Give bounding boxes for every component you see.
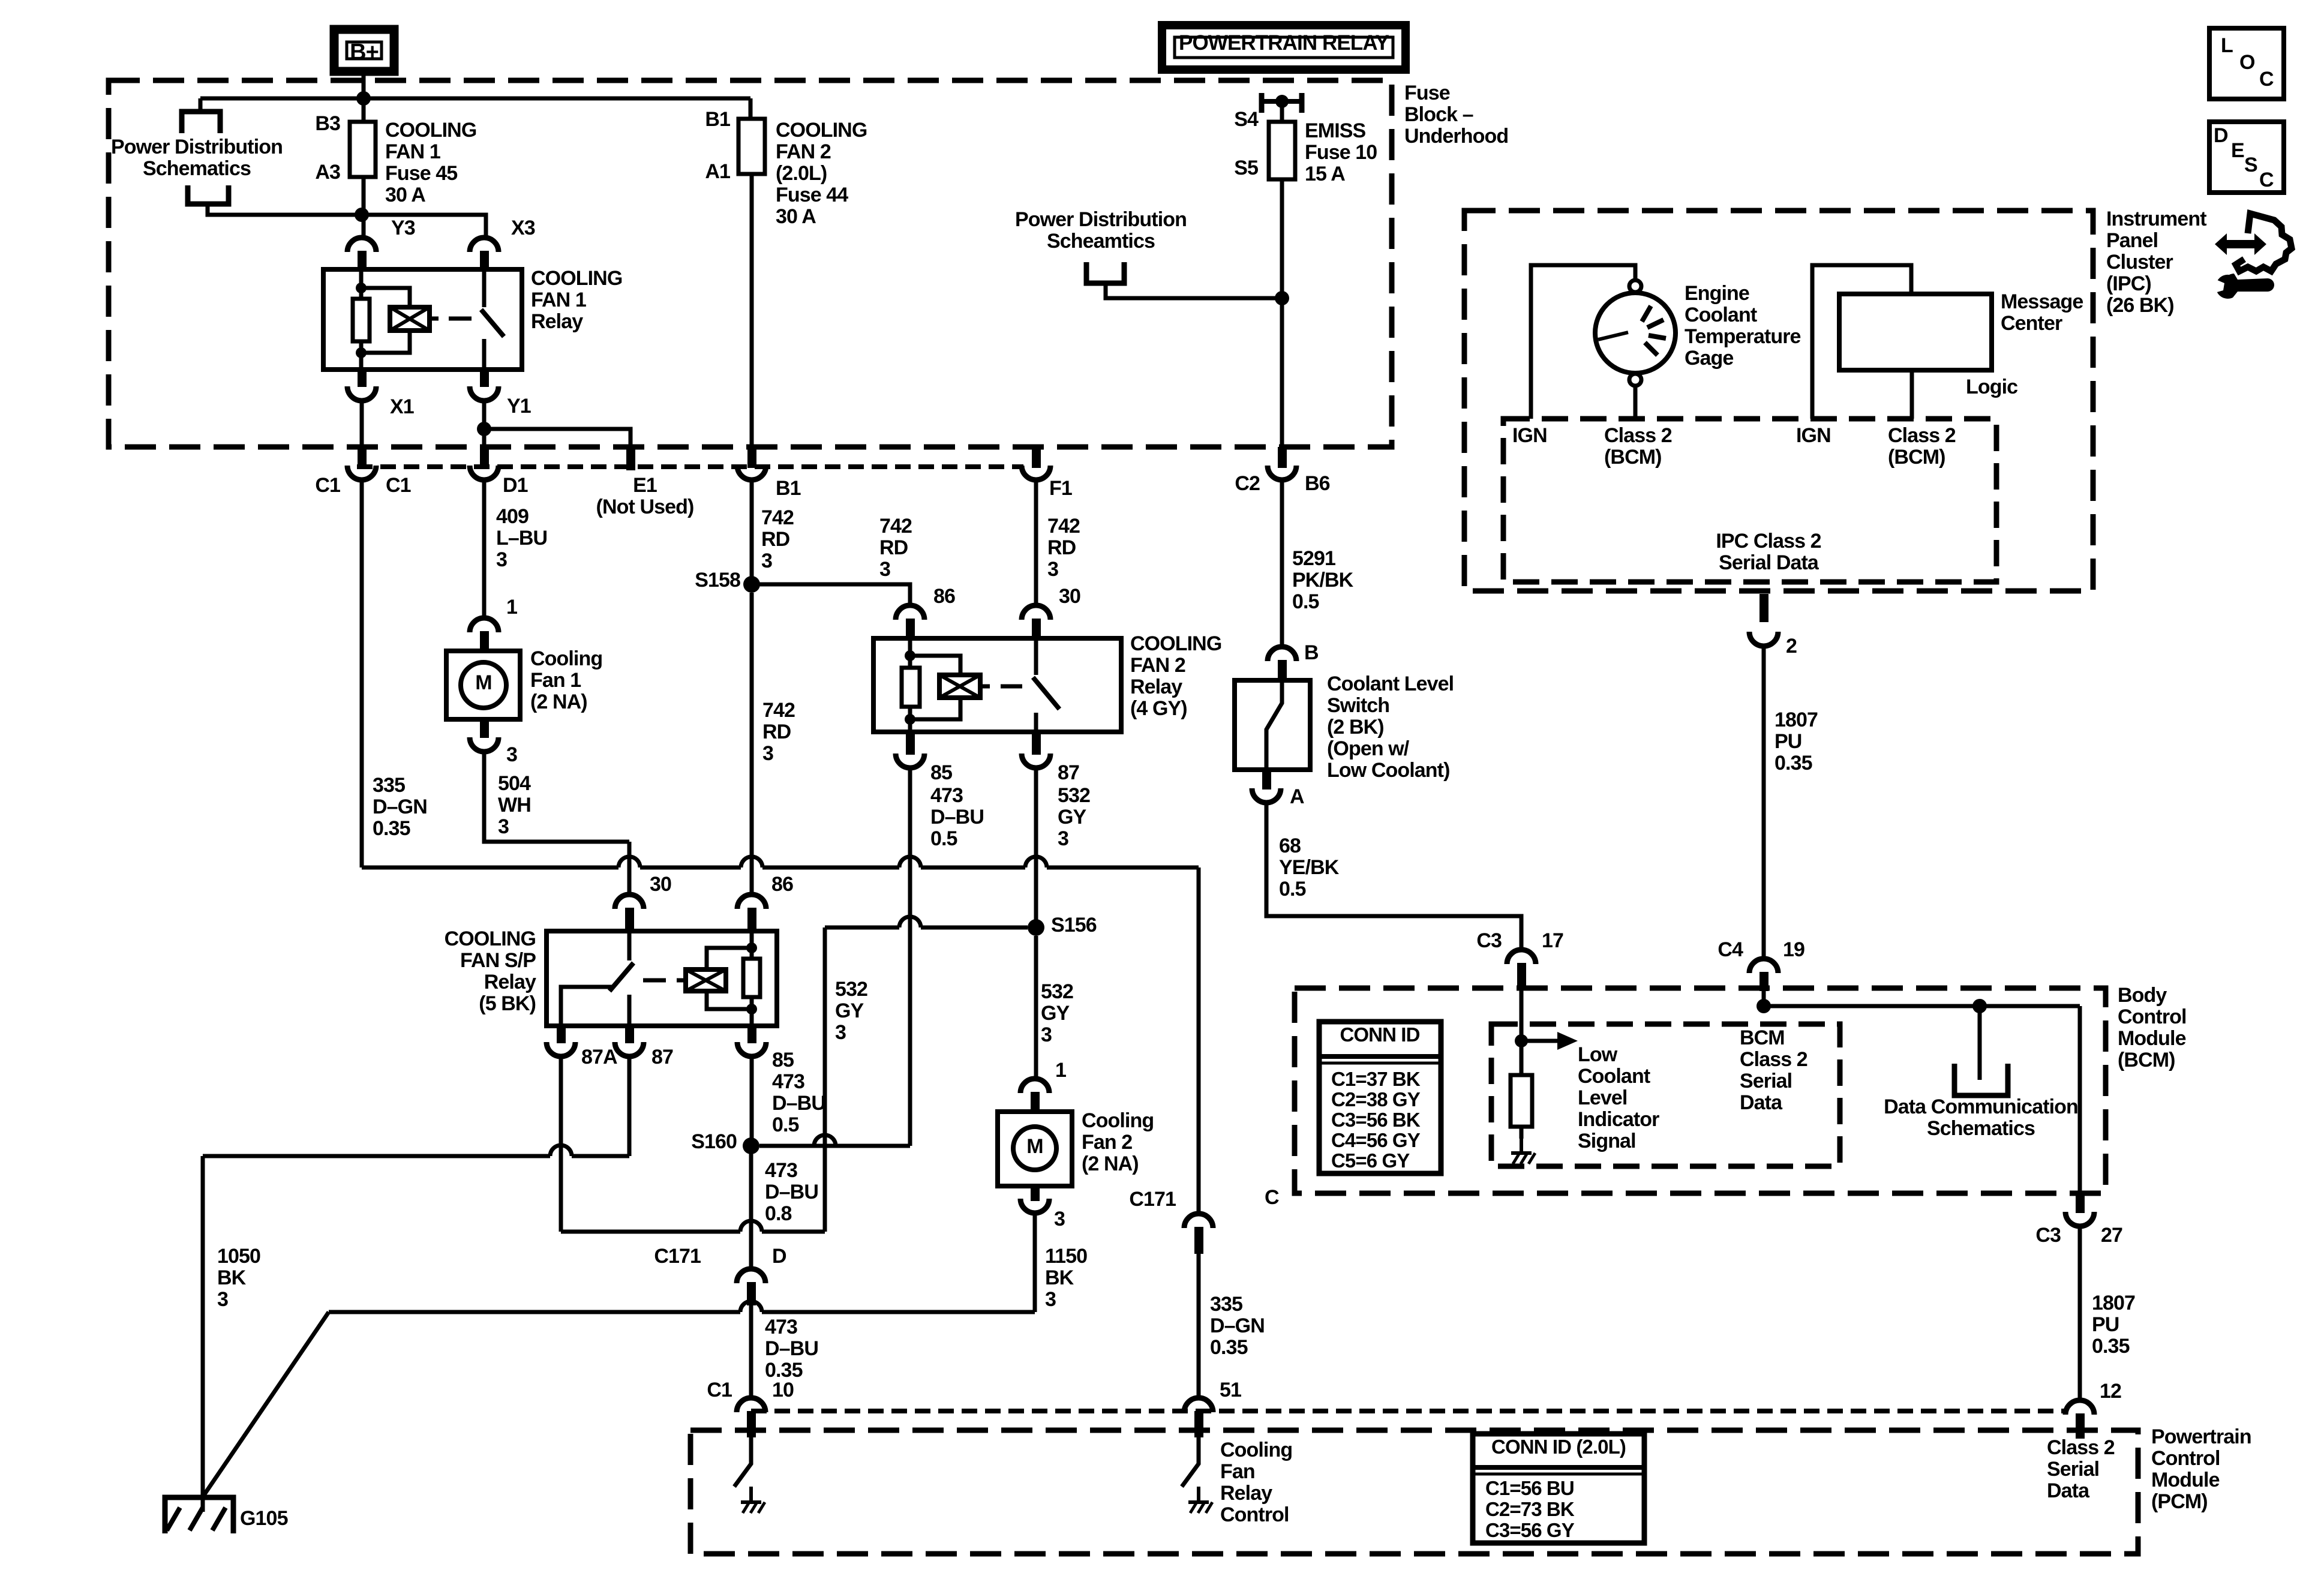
svg-text:C1: C1 [315, 474, 340, 497]
coolant level switch box [1235, 680, 1310, 770]
svg-text:3: 3 [1047, 558, 1058, 581]
svg-text:COOLING: COOLING [776, 119, 867, 142]
svg-text:C2=38 GY: C2=38 GY [1331, 1088, 1421, 1110]
connector 30 relay K2 (cup) [1022, 605, 1050, 620]
wire message center logic [1910, 370, 1914, 419]
connector 1 fan1 (cup) [470, 618, 499, 632]
svg-text:A: A [1290, 785, 1304, 808]
svg-text:C3=56 GY: C3=56 GY [1485, 1519, 1575, 1541]
svg-text:GY: GY [1058, 806, 1087, 828]
node fuse45/X3 junction [355, 208, 369, 222]
svg-text:0.35: 0.35 [373, 817, 410, 840]
svg-text:Class 2: Class 2 [1604, 424, 1672, 447]
svg-text:0.5: 0.5 [1279, 878, 1306, 900]
svg-text:FAN 1: FAN 1 [531, 289, 586, 311]
svg-text:(PCM): (PCM) [2151, 1490, 2208, 1513]
pin 3 fan2 [1031, 1185, 1040, 1201]
svg-text:C: C [1265, 1186, 1279, 1209]
svg-text:(5 BK): (5 BK) [479, 992, 536, 1015]
svg-text:87A: 87A [581, 1046, 617, 1068]
svg-text:(2 BK): (2 BK) [1327, 716, 1384, 739]
pin 87 relay K2 [1032, 731, 1041, 755]
node relay K3 coil bottom [746, 1004, 757, 1014]
svg-text:E1: E1 [633, 474, 657, 497]
wire from bracket to fuse 45 leg [208, 204, 364, 215]
pin 87 S/P relay [625, 1025, 634, 1043]
svg-text:1150: 1150 [1045, 1245, 1087, 1268]
relay K1 COOLING FAN 1 Relay box [323, 269, 522, 370]
svg-text:GY: GY [1041, 1002, 1070, 1025]
pin B1 at fuse block exit [747, 447, 756, 468]
svg-text:Relay: Relay [1130, 676, 1182, 698]
svg-text:17: 17 [1542, 929, 1563, 952]
fuse F44 COOLING FAN 2 [738, 119, 765, 174]
svg-text:1807: 1807 [2092, 1292, 2135, 1314]
svg-text:68: 68 [1279, 834, 1301, 857]
svg-text:Body: Body [2118, 984, 2167, 1007]
relay K2 coil wire [908, 638, 912, 732]
svg-text:RD: RD [762, 721, 791, 743]
svg-text:B6: B6 [1305, 472, 1330, 495]
connector D1 (cup) [470, 466, 499, 480]
svg-text:87: 87 [1058, 761, 1079, 784]
svg-text:742: 742 [761, 506, 794, 529]
svg-text:PU: PU [1774, 730, 1801, 753]
wire relay K1 solenoid bracket [361, 288, 410, 307]
wire fan2 pin3 down [1033, 1213, 1037, 1312]
svg-text:30 A: 30 A [776, 205, 816, 228]
connector A coolant switch (cup) [1252, 788, 1281, 803]
svg-text:Gage: Gage [1685, 347, 1733, 370]
svg-text:D: D [772, 1245, 786, 1268]
svg-text:1: 1 [1055, 1059, 1066, 1082]
solenoid relay K3 [686, 969, 726, 991]
svg-text:Signal: Signal [1578, 1130, 1636, 1152]
fuse F10 EMISS [1269, 122, 1295, 179]
wire bracket to EMISS wire [1106, 283, 1282, 298]
relay K1 switch lower contact [482, 339, 487, 370]
svg-text:3: 3 [1045, 1288, 1056, 1311]
splice bus S4 in fuse block [1262, 93, 1302, 113]
svg-text:Class 2: Class 2 [2047, 1436, 2115, 1459]
pin E1 (not used) [626, 449, 635, 470]
fuse F45 COOLING FAN 1 [350, 122, 376, 177]
svg-text:Serial Data: Serial Data [1719, 551, 1819, 574]
wire branch to X3 [364, 215, 486, 239]
wire branch to E1 [484, 429, 630, 449]
svg-text:Y1: Y1 [507, 395, 531, 418]
svg-text:C: C [2259, 68, 2274, 91]
wire B1 to S158 [750, 480, 754, 584]
svg-text:FAN 1: FAN 1 [385, 140, 440, 163]
connector 12 PCM (cup) [2065, 1400, 2094, 1415]
svg-text:85: 85 [772, 1049, 794, 1071]
wire C3/27 to PCM 12 [2078, 1226, 2082, 1399]
svg-text:15 A: 15 A [1305, 163, 1345, 185]
wire gauge to Class 2 (BCM) [1634, 386, 1638, 419]
connector line PCM (dotted) [751, 1409, 2067, 1413]
gauge bottom terminal circle [1629, 374, 1641, 386]
wire 1050 BK vertical [201, 1156, 205, 1512]
svg-text:C171: C171 [654, 1245, 701, 1268]
motor M1 Cooling Fan 1 box [446, 651, 520, 719]
svg-text:IPC Class 2: IPC Class 2 [1716, 530, 1821, 553]
svg-text:Temperature: Temperature [1685, 325, 1801, 348]
svg-text:Y3: Y3 [391, 217, 415, 239]
svg-text:A1: A1 [705, 160, 730, 183]
svg-text:COOLING: COOLING [1130, 632, 1221, 655]
resistor relay K1 coil [353, 299, 370, 341]
svg-text:0.8: 0.8 [765, 1202, 792, 1225]
wire relay K2 85 down to S160 [908, 768, 912, 1146]
svg-text:(BCM): (BCM) [1604, 446, 1662, 469]
svg-text:Module: Module [2118, 1027, 2186, 1050]
pin 85 S/P relay [747, 1025, 756, 1043]
svg-text:C1: C1 [386, 474, 411, 497]
svg-text:BCM: BCM [1740, 1026, 1785, 1049]
connector F1 (cup) [1022, 466, 1050, 480]
pin C1 at fuse block exit [358, 447, 367, 468]
resistor BCM low coolant [1511, 1075, 1532, 1127]
connector 10 PCM (cup) [737, 1398, 765, 1412]
svg-text:D–BU: D–BU [765, 1181, 818, 1203]
wire A to C3/17 [1266, 803, 1521, 951]
svg-text:C2: C2 [1235, 472, 1260, 495]
svg-text:409: 409 [496, 505, 529, 528]
wire S158 to relay K2 86 [752, 584, 910, 605]
svg-text:0.35: 0.35 [2092, 1335, 2130, 1358]
svg-text:S5: S5 [1234, 157, 1258, 179]
svg-text:Relay: Relay [531, 310, 583, 333]
svg-text:PK/BK: PK/BK [1292, 569, 1354, 592]
node relay K1 coil bottom [356, 347, 367, 358]
svg-text:Control: Control [2151, 1447, 2220, 1470]
svg-text:30: 30 [650, 873, 671, 896]
svg-text:IGN: IGN [1796, 424, 1831, 447]
svg-text:Schematics: Schematics [143, 157, 251, 180]
svg-text:532: 532 [835, 978, 867, 1001]
wire class2 to PCM leg [2078, 1006, 2082, 1194]
pin X3 [480, 251, 489, 271]
connector 87 relay K2 (cup) [1022, 754, 1050, 768]
svg-text:S160: S160 [691, 1130, 737, 1153]
svg-text:B1: B1 [705, 108, 730, 131]
svg-text:87: 87 [651, 1046, 673, 1068]
wire 87A to 532 GY left (horizontal) [561, 1221, 825, 1232]
svg-text:G105: G105 [240, 1507, 288, 1530]
svg-text:Indicator: Indicator [1578, 1108, 1659, 1131]
svg-text:X3: X3 [511, 217, 535, 239]
svg-text:C5=6 GY: C5=6 GY [1331, 1149, 1410, 1172]
Fuse Block - Underhood dashed box [109, 80, 1392, 447]
svg-text:Coolant: Coolant [1578, 1065, 1650, 1088]
svg-text:1: 1 [506, 596, 517, 619]
wire relay K3 solenoid bracket [707, 948, 752, 969]
wire fuse44 to B1 connector [750, 174, 754, 449]
svg-text:C171: C171 [1129, 1188, 1176, 1211]
svg-text:Coolant Level: Coolant Level [1327, 673, 1454, 695]
svg-text:Control: Control [1220, 1503, 1289, 1526]
off-page connector Data Communication (bracket) [1954, 1064, 2008, 1095]
splice S160 [743, 1137, 759, 1154]
connector line C1 (dotted) [357, 464, 1023, 469]
svg-text:Message: Message [2001, 290, 2083, 313]
svg-text:Serial: Serial [1740, 1070, 1792, 1092]
svg-text:Block –: Block – [1404, 103, 1473, 126]
svg-text:335: 335 [373, 774, 405, 797]
coolant switch blade [1266, 680, 1282, 770]
svg-text:532: 532 [1041, 980, 1073, 1003]
wire IGN right riser [1812, 265, 1911, 419]
svg-text:2: 2 [1786, 635, 1797, 658]
svg-text:Class 2: Class 2 [1740, 1048, 1807, 1071]
svg-text:(BCM): (BCM) [1888, 446, 1945, 469]
svg-text:RD: RD [879, 536, 908, 559]
wire S/P 87 down [627, 1056, 632, 1156]
svg-text:Fan: Fan [1220, 1460, 1255, 1483]
node low coolant signal junction [1515, 1034, 1528, 1047]
solenoid relay K2 [939, 675, 980, 698]
resistor relay K2 coil [902, 668, 920, 707]
wire D1 to cooling fan 1 [482, 480, 487, 619]
svg-text:B1: B1 [776, 477, 801, 500]
wire 335 D-GN horizontal to C171 C [362, 857, 1199, 867]
svg-text:1807: 1807 [1774, 709, 1818, 731]
svg-text:(IPC): (IPC) [2106, 272, 2151, 295]
svg-text:335: 335 [1210, 1293, 1242, 1316]
svg-text:3: 3 [498, 815, 509, 838]
svg-text:D–GN: D–GN [373, 795, 427, 818]
ground PCM 51 [1197, 1487, 1200, 1502]
svg-text:Serial: Serial [2047, 1458, 2099, 1481]
svg-text:(26 BK): (26 BK) [2106, 294, 2174, 317]
wire B+ vertical into fuse block [362, 76, 366, 122]
wire 532 GY left vertical [823, 927, 827, 1232]
svg-text:D: D [2214, 124, 2228, 147]
wire BCM class2 horizontal [1764, 1004, 2080, 1008]
svg-text:C4=56 GY: C4=56 GY [1331, 1129, 1421, 1151]
off-page connector Power Distribution (bottom bracket) [188, 185, 229, 204]
node relay K2 coil top [905, 650, 915, 661]
node Y1/E1 branch [477, 422, 491, 436]
svg-text:3: 3 [761, 550, 772, 572]
svg-text:S156: S156 [1051, 914, 1097, 936]
svg-text:CONN ID (2.0L): CONN ID (2.0L) [1491, 1436, 1626, 1458]
gauge engine coolant temperature circle [1595, 293, 1676, 373]
pin F1 at fuse block exit [1032, 447, 1041, 468]
pin 85 relay K2 [906, 731, 915, 755]
connector C171 D (cup) [737, 1269, 765, 1283]
wire S160 horizontal to 473 wire [759, 1135, 910, 1146]
svg-text:Data: Data [2047, 1479, 2090, 1502]
connector B1 (cup) [737, 466, 766, 480]
svg-text:473: 473 [765, 1159, 797, 1182]
svg-text:L–BU: L–BU [496, 527, 547, 550]
connector C2/B6 (cup) [1268, 466, 1296, 480]
splice S156 [1028, 919, 1044, 936]
svg-text:0.35: 0.35 [1210, 1336, 1248, 1359]
svg-text:Cooling: Cooling [1220, 1439, 1292, 1461]
svg-text:Switch: Switch [1327, 694, 1389, 717]
svg-text:M: M [475, 671, 491, 694]
pin C2 [1278, 447, 1287, 468]
svg-text:C3: C3 [1476, 929, 1502, 952]
svg-text:85: 85 [930, 761, 952, 784]
PCM driver switch 10 [734, 1437, 751, 1487]
svg-text:EMISS: EMISS [1305, 119, 1366, 142]
connector 51 PCM (cup) [1184, 1398, 1213, 1412]
svg-text:3: 3 [496, 548, 507, 571]
svg-text:YE/BK: YE/BK [1279, 856, 1340, 879]
connector 85 S/P relay (cup) [737, 1042, 766, 1056]
pin Y3 [358, 251, 367, 271]
connector 3 fan2 (cup) [1020, 1199, 1049, 1213]
wire resistor to ground [1520, 1127, 1524, 1139]
svg-text:Logic: Logic [1966, 376, 2017, 398]
svg-text:D1: D1 [503, 474, 528, 497]
svg-text:Schematics: Schematics [1927, 1117, 2035, 1140]
svg-text:(4 GY): (4 GY) [1130, 697, 1187, 720]
svg-text:5291: 5291 [1292, 547, 1335, 570]
wire S4 to fuse [1280, 101, 1284, 122]
connector 85 relay K2 (cup) [896, 754, 924, 768]
svg-text:O: O [2239, 51, 2255, 74]
wire B+ bus horizontal [200, 97, 750, 101]
wire drop to Power Distribution bracket [199, 98, 203, 110]
pin Y1 [480, 368, 489, 387]
svg-text:742: 742 [762, 699, 795, 722]
relay K3 switch common from 30 [627, 931, 632, 960]
svg-text:C3=56 BK: C3=56 BK [1331, 1109, 1421, 1131]
pin D1 at fuse block exit [480, 447, 489, 468]
relay K1 actuator dashes [430, 317, 439, 321]
svg-text:Module: Module [2151, 1469, 2220, 1491]
svg-text:3: 3 [1058, 827, 1068, 850]
relay K1 switch common [482, 272, 487, 307]
pin 87A S/P relay [557, 1025, 566, 1043]
svg-text:504: 504 [498, 772, 531, 795]
connector C3/27 (cup) [2065, 1212, 2094, 1226]
svg-text:(2 NA): (2 NA) [1082, 1152, 1139, 1175]
svg-text:BK: BK [1045, 1266, 1074, 1289]
svg-text:3: 3 [217, 1288, 228, 1311]
connector 3 fan1 (cup) [470, 737, 499, 752]
pin 3 fan1 [480, 718, 489, 738]
wire S160 down [749, 1154, 753, 1270]
node S4 [1275, 95, 1289, 108]
svg-text:COOLING: COOLING [445, 927, 536, 950]
svg-text:Class 2: Class 2 [1888, 424, 1956, 447]
wire S/P 85 to S160 [750, 1056, 754, 1138]
relay K1 switch blade [481, 310, 504, 337]
svg-text:Fuse 45: Fuse 45 [385, 162, 457, 185]
svg-text:B+: B+ [350, 40, 379, 65]
svg-text:473: 473 [765, 1316, 797, 1338]
svg-text:CONN ID: CONN ID [1340, 1023, 1419, 1046]
ground PCM 10 [749, 1487, 753, 1502]
arrow low coolant level indicator signal [1521, 1032, 1578, 1050]
svg-text:RD: RD [761, 528, 790, 551]
wire F1 to relay K2 30 [1034, 480, 1038, 605]
svg-text:3: 3 [762, 742, 773, 765]
svg-text:C3: C3 [2035, 1224, 2061, 1247]
svg-text:27: 27 [2101, 1224, 2122, 1247]
svg-text:D–BU: D–BU [765, 1337, 818, 1360]
wire fan1 pin3 to S/P relay 30 [484, 752, 629, 842]
connector 87A S/P relay (cup) [547, 1042, 575, 1056]
off-page connector Power Distribution Scheamtics (bracket) [1086, 262, 1124, 283]
svg-text:Instrument: Instrument [2106, 208, 2206, 230]
svg-text:0.35: 0.35 [1774, 752, 1812, 775]
svg-text:E: E [2231, 139, 2244, 162]
relay K2 switch common [1034, 641, 1038, 675]
message center box [1839, 294, 1992, 370]
svg-text:(Not Used): (Not Used) [596, 496, 694, 518]
relay K3 switch 87A branch [561, 987, 612, 1026]
svg-text:742: 742 [1047, 515, 1080, 538]
relay K2 actuator dashes [980, 685, 990, 689]
svg-text:Fuse 10: Fuse 10 [1305, 141, 1377, 164]
svg-text:3: 3 [1041, 1023, 1052, 1046]
svg-text:10: 10 [772, 1379, 794, 1401]
svg-text:FAN 2: FAN 2 [776, 140, 831, 163]
svg-text:86: 86 [771, 873, 793, 896]
svg-text:M: M [1026, 1135, 1043, 1158]
svg-text:GY: GY [835, 999, 864, 1022]
CONN ID (2.0L) table [1473, 1434, 1644, 1543]
svg-text:C1: C1 [707, 1379, 732, 1401]
wire fan2 ground horizontal [329, 1301, 1035, 1312]
svg-text:Data: Data [1740, 1091, 1783, 1114]
svg-text:Level: Level [1578, 1086, 1627, 1109]
pin class2 BCM exit [2076, 1193, 2085, 1213]
resistor relay K3 coil [743, 959, 760, 997]
svg-text:Fuse: Fuse [1404, 82, 1450, 104]
wire 87 to 1050 BK (horizontal) [203, 1145, 629, 1156]
relay K2 switch lower contact [1034, 713, 1038, 732]
svg-text:473: 473 [930, 784, 963, 807]
svg-text:51: 51 [1220, 1379, 1241, 1401]
node BCM class2 junction [1756, 999, 1771, 1013]
gauge top terminal circle [1629, 280, 1641, 292]
wire S156 down to fan2 [1034, 936, 1038, 1080]
connector C3/17 (cup) [1507, 950, 1536, 964]
motor M2 circle [1013, 1127, 1056, 1170]
svg-text:742: 742 [879, 515, 912, 538]
svg-text:PU: PU [2092, 1313, 2119, 1336]
svg-text:C4: C4 [1718, 938, 1743, 961]
wire X1 to C1 [360, 401, 364, 449]
svg-text:FAN S/P: FAN S/P [460, 949, 536, 972]
Body Control Module dashed box [1295, 988, 2106, 1193]
BCM inner dashed box [1491, 1024, 1840, 1166]
IPC inner dashed box [1503, 419, 1996, 582]
svg-text:RD: RD [1047, 536, 1076, 559]
svg-text:FAN 2: FAN 2 [1130, 654, 1185, 677]
pin A coolant switch [1262, 769, 1271, 789]
node data comm branch [1972, 999, 1987, 1013]
node relay K3 coil top [746, 942, 757, 953]
POWERTRAIN RELAY label box [1162, 25, 1406, 70]
PCM driver switch 51 [1182, 1437, 1199, 1487]
gauge needle and ticks [1598, 306, 1666, 355]
svg-text:S: S [2244, 154, 2257, 176]
connector Y3 (cup) [347, 238, 376, 252]
svg-text:Engine: Engine [1685, 282, 1749, 305]
solenoid relay K1 [390, 307, 430, 331]
svg-text:3: 3 [1054, 1208, 1065, 1230]
wire IGN left riser [1531, 265, 1635, 419]
